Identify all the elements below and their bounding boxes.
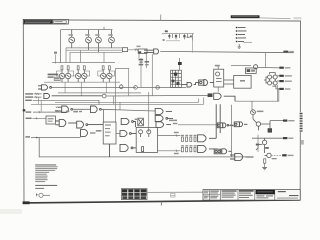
terminal T3 xyxy=(279,80,291,82)
wire bus risers xyxy=(114,96,204,110)
gate U5 xyxy=(91,106,102,113)
wire vertical center xyxy=(148,92,150,132)
transistor Q5 xyxy=(59,70,64,82)
wire bridge out 2 xyxy=(277,80,280,82)
input label IN6 xyxy=(25,136,37,138)
drawing number strip top-right xyxy=(231,15,302,19)
terminal T7 xyxy=(282,154,293,156)
gate U21 xyxy=(230,153,254,160)
wire U4 to U5 xyxy=(73,108,91,110)
inline lamp L2 xyxy=(134,86,138,90)
resistor R6 xyxy=(108,66,110,70)
parts table stamp bottom-center xyxy=(121,189,147,200)
input tick on frame xyxy=(23,109,26,111)
wire R7 to ground xyxy=(264,163,266,167)
gate U22 xyxy=(217,123,234,128)
gate U2 xyxy=(38,85,51,90)
wire big loop xyxy=(39,138,253,157)
wire bus mid 2 xyxy=(31,103,204,105)
input label IN4 xyxy=(26,111,68,113)
gate U9 xyxy=(196,80,214,86)
transistor Q2 xyxy=(86,30,92,51)
wire M1 out 1 xyxy=(158,134,181,136)
gate U16 xyxy=(120,131,136,137)
inline connector P1 xyxy=(102,94,106,98)
module box M1 xyxy=(136,127,157,152)
upper output transistor cluster xyxy=(253,115,272,133)
wire testpoint drop xyxy=(192,41,194,53)
label under Q18 xyxy=(272,158,277,159)
gate U15 xyxy=(156,122,171,128)
wire input jogs xyxy=(39,97,42,112)
node drop to right column xyxy=(265,53,267,68)
output stage cluster xyxy=(256,138,269,153)
resistor row RN2 xyxy=(181,145,197,152)
title label box top-left xyxy=(23,19,68,24)
border frame bottom heavy edge xyxy=(23,200,301,204)
revision list xyxy=(236,27,252,48)
transistor Q17 xyxy=(135,118,144,126)
spare gate symbol in notes area xyxy=(36,193,50,197)
resistor R4 xyxy=(83,66,85,70)
transistor Q9 xyxy=(101,70,106,82)
wire U1 branch vertical xyxy=(151,54,153,96)
input label IN1 xyxy=(25,93,41,95)
label Q3 xyxy=(95,34,99,36)
wire bus left drops xyxy=(66,48,104,63)
wire U1 output long xyxy=(160,51,293,52)
wire collector bus 2 xyxy=(66,49,122,51)
wire long vertical right-mid xyxy=(231,105,233,134)
gate U19 xyxy=(198,104,221,152)
gate U11 xyxy=(214,93,235,101)
bottom centering tick xyxy=(160,201,162,206)
relay K2 xyxy=(214,65,224,87)
wire Q18 to terminal dashed xyxy=(271,154,282,156)
diode D1 xyxy=(122,48,127,52)
transistor Q4 xyxy=(109,30,115,48)
transistor Q8 xyxy=(82,70,87,82)
wire bridge stem xyxy=(277,85,279,101)
wire bridge out 1 xyxy=(277,75,280,77)
wire D1 to D2 xyxy=(128,48,138,50)
net label 16 xyxy=(54,52,57,54)
blob on U3 line xyxy=(208,93,213,97)
test point header row xyxy=(162,30,194,40)
label Q2 xyxy=(85,34,89,36)
resistor R1 xyxy=(61,66,63,70)
transistor Q6 xyxy=(65,70,70,82)
wire D2 drops xyxy=(139,53,146,61)
trimmer cluster VR1 xyxy=(139,58,144,87)
wire stub below label xyxy=(55,55,57,64)
terminal T5 xyxy=(283,120,295,122)
wire U3 output continues xyxy=(106,94,208,97)
wire second supply rail xyxy=(52,62,115,64)
inline lamp L1 xyxy=(119,84,123,89)
net label U8 out xyxy=(96,130,102,132)
gate U17 xyxy=(110,144,137,157)
diode D2 xyxy=(138,49,147,53)
input label IN3 xyxy=(25,100,99,105)
label A1 pins xyxy=(105,124,111,136)
driver box K3 xyxy=(245,68,256,73)
small marks left of title block xyxy=(171,194,175,197)
transistor Q1 xyxy=(69,30,75,48)
wire Q7 Q8 coupling xyxy=(73,71,90,76)
notes text block xyxy=(35,164,58,189)
gate U6 xyxy=(55,120,76,127)
wire loop lower long xyxy=(31,137,81,139)
wire bus mid 1 xyxy=(55,101,199,103)
transistor Q18 xyxy=(265,153,272,157)
terminal T1 xyxy=(279,67,290,69)
wire pair tails xyxy=(65,82,106,96)
transistor Q10 xyxy=(107,70,112,82)
wire Q5 Q6 coupling xyxy=(57,71,74,76)
net label at wire end xyxy=(283,51,293,53)
ground symbol xyxy=(262,167,267,169)
input label IN5 xyxy=(26,117,46,119)
component box K1 xyxy=(46,116,55,124)
transistor Q11 xyxy=(254,65,258,69)
wire M1 out 2 xyxy=(158,150,181,152)
wire top supply rail xyxy=(61,29,113,31)
terminal T4 xyxy=(279,88,290,90)
gate U8 xyxy=(81,130,96,137)
block A1 xyxy=(103,122,116,144)
inline lamp L3 xyxy=(156,86,160,90)
wire feed to Q11 xyxy=(231,65,251,67)
ic U10 xyxy=(224,75,251,88)
input label IN2 xyxy=(25,96,41,98)
resistor R3 xyxy=(77,66,79,70)
terminal T6 xyxy=(283,137,293,139)
wire collector bus 1 xyxy=(66,47,122,49)
label RT1 network xyxy=(48,74,61,81)
wire lamp to lamp xyxy=(137,86,186,88)
bridge Q12-Q15 xyxy=(264,73,277,85)
transistor blob above N1 xyxy=(178,58,182,70)
node rail tick xyxy=(103,27,105,30)
resistor row RN1 xyxy=(181,135,197,142)
transistor Q7 xyxy=(76,70,81,82)
title block xyxy=(203,189,300,200)
resistor R2 xyxy=(67,66,69,70)
scan shadow bottom-left xyxy=(0,209,22,214)
resistor R5 xyxy=(102,66,104,70)
resistor R7 xyxy=(264,159,266,163)
border frame xyxy=(23,20,300,203)
gate U13 xyxy=(155,108,172,114)
wire K2 stem xyxy=(217,66,219,92)
gate U7 xyxy=(77,121,103,128)
right edge fold marks xyxy=(300,112,304,144)
wire rail left leg xyxy=(60,30,62,63)
wire U2 output xyxy=(52,86,137,88)
dense network N1 xyxy=(171,70,182,87)
parts strip rule xyxy=(147,191,209,193)
wire Q9 Q10 coupling xyxy=(98,71,115,76)
trimmer cluster VR2 xyxy=(145,61,149,69)
wire U12 feed xyxy=(116,133,120,135)
wire emitter bus xyxy=(44,81,120,83)
terminal T2 xyxy=(279,75,291,77)
wire to terminal T5 xyxy=(270,120,284,122)
label Q16 xyxy=(257,111,264,113)
gate U1 xyxy=(144,49,159,54)
wire to terminal T6 xyxy=(252,138,284,140)
wire bridge out 3 xyxy=(272,86,280,89)
wire U15 to U22 xyxy=(178,124,217,126)
wire mid horizontal net xyxy=(58,92,141,94)
gate U14 xyxy=(155,115,173,121)
gate U12 xyxy=(121,118,135,127)
gate U18 xyxy=(198,104,217,142)
wire Q11 to terminal xyxy=(258,66,280,69)
wire collector bus 3 xyxy=(70,51,122,53)
wire gate column riser xyxy=(257,135,259,152)
gate U3 xyxy=(44,94,102,99)
net labels M1 xyxy=(174,132,179,154)
gate U4 xyxy=(55,106,73,113)
wire loop upper-mid xyxy=(116,69,129,123)
transistor Q16 xyxy=(251,110,256,115)
wire right loop xyxy=(235,88,279,101)
wire loop to Q16 xyxy=(251,101,253,110)
gate U23 xyxy=(234,122,247,127)
wire U5 output down xyxy=(101,109,155,122)
transistor Q3 xyxy=(96,30,102,53)
top centering tick xyxy=(160,15,162,21)
gate U20 xyxy=(214,134,231,157)
label Q4 xyxy=(108,34,112,36)
gate U9b xyxy=(181,82,195,87)
label Q1 xyxy=(69,34,73,36)
label D2 xyxy=(137,46,141,48)
label node pair xyxy=(66,111,82,113)
net labels U13-U15 xyxy=(169,120,177,125)
